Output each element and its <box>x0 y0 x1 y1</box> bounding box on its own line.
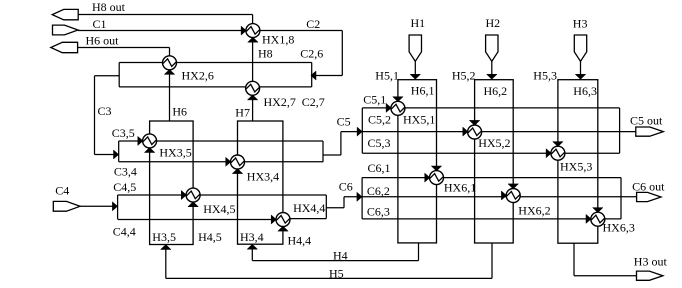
wire H3 feed <box>580 61 582 79</box>
wire C6 collect manifold <box>620 178 622 219</box>
arrow down into HX6,1 <box>431 166 441 171</box>
svg-text:HX5,2: HX5,2 <box>478 136 510 150</box>
stream arrow C4 in <box>53 201 80 211</box>
wire C3,5 branch <box>119 140 323 142</box>
heat exchanger HX5,3 <box>551 146 565 160</box>
wire C4,4 branch <box>118 219 277 221</box>
wire C5 merge jog <box>340 132 342 155</box>
svg-text:H3 out: H3 out <box>634 255 668 269</box>
svg-text:C3,4: C3,4 <box>114 165 137 179</box>
arrow up into HX1,8 <box>248 37 258 42</box>
arrow up into column L2 <box>247 244 257 249</box>
svg-text:C3,5: C3,5 <box>112 126 135 140</box>
wire C2,7 branch (box bottom) <box>119 86 312 88</box>
svg-text:H3,5: H3,5 <box>152 230 176 244</box>
wire C3 manifold <box>118 141 120 162</box>
svg-text:C6,1: C6,1 <box>368 161 391 175</box>
arrow H1 into column R1 <box>410 74 420 79</box>
wire C5 collect manifold <box>619 108 621 153</box>
wire H5 drop from column R2 <box>491 243 493 278</box>
svg-text:H2: H2 <box>486 16 501 30</box>
arrow up into HX3,4 <box>232 169 242 174</box>
wire C2,6 branch (box top) <box>119 62 312 64</box>
arrow into HX5,3 <box>546 149 551 158</box>
svg-text:H5,2: H5,2 <box>452 68 476 82</box>
svg-text:H6 out: H6 out <box>86 34 120 48</box>
heat exchanger HX6,1 <box>430 171 444 185</box>
wire H8 out line <box>78 14 253 16</box>
svg-text:C4,4: C4,4 <box>113 225 136 239</box>
wire C6 merge tap <box>326 207 344 209</box>
heat exchanger HX2,6 <box>163 56 177 70</box>
arrow into HX5,2 <box>463 127 468 136</box>
arrow up into HX2,6 <box>164 69 174 74</box>
wire C6 split manifold <box>361 178 363 219</box>
wire C6 merge jog <box>343 197 345 208</box>
arrow down into HX5,3 <box>553 142 563 147</box>
svg-text:C1: C1 <box>93 17 107 31</box>
svg-text:C6,3: C6,3 <box>367 205 390 219</box>
svg-text:H4,5: H4,5 <box>198 230 222 244</box>
wire C5 split manifold <box>361 108 363 153</box>
svg-text:HX3,4: HX3,4 <box>247 170 279 184</box>
wire C3 inlet <box>95 154 119 156</box>
arrow down into HX6,2 <box>508 184 518 189</box>
heat exchanger HX4,4 <box>276 213 290 227</box>
svg-text:HX4,4: HX4,4 <box>293 201 325 215</box>
arrow into HX6,3 <box>586 214 591 223</box>
svg-text:HX1,8: HX1,8 <box>262 32 294 46</box>
svg-text:H5,3: H5,3 <box>533 68 557 82</box>
arrow up into HX4,4 <box>278 226 288 231</box>
arrow H2 into column R2 <box>487 74 497 79</box>
arrow down into HX5,2 <box>469 120 479 125</box>
arrow C2,6 into box <box>311 71 316 80</box>
wire C5,2 branch / C5 out <box>341 131 636 133</box>
svg-text:H8: H8 <box>258 47 273 61</box>
wire H5 riser into column L1 <box>165 245 167 279</box>
svg-text:HX6,1: HX6,1 <box>444 181 476 195</box>
svg-text:C5: C5 <box>337 115 351 129</box>
stream arrow H1 in <box>409 35 421 61</box>
column R3 <box>558 80 598 244</box>
column R2 <box>475 80 514 243</box>
svg-text:C2,6: C2,6 <box>300 47 323 61</box>
arrow C5 into manifold <box>357 127 362 136</box>
stream arrow H3 in <box>574 35 586 61</box>
wire H4 drop from column R1 <box>418 243 420 261</box>
svg-text:C6 out: C6 out <box>632 180 665 194</box>
wire H8/H7 vertical <box>252 15 254 122</box>
wire H2 feed <box>491 61 493 79</box>
svg-text:HX5,3: HX5,3 <box>560 159 592 173</box>
wire C5 merge bracket <box>322 141 324 162</box>
svg-text:H4: H4 <box>333 249 348 263</box>
arrow into HX1,8 <box>241 26 246 35</box>
wire H6 vertical <box>169 48 171 122</box>
stream arrow C5 out <box>636 127 664 136</box>
svg-text:H3: H3 <box>573 17 588 31</box>
wire C3,4 branch <box>119 161 324 163</box>
heat exchanger HX3,5 <box>143 134 157 148</box>
wire C6,3 branch <box>362 218 621 220</box>
svg-text:C5,2: C5,2 <box>368 112 391 126</box>
wire H5 line <box>166 277 492 279</box>
svg-text:C6,2: C6,2 <box>367 184 390 198</box>
arrow down into HX5,1 <box>393 97 403 102</box>
wire C4,5 branch <box>118 194 327 196</box>
wire C5,1 branch <box>362 107 619 109</box>
wire C5,3 branch <box>362 152 619 154</box>
heat exchanger HX4,5 <box>186 188 200 202</box>
wire C3 tap <box>95 75 120 77</box>
heat exchanger HX1,8 <box>246 24 260 38</box>
heat exchanger HX6,3 <box>591 212 605 226</box>
column R1 <box>398 80 437 243</box>
arrow C6 into manifold <box>357 192 362 201</box>
wire C2 drop <box>341 31 343 76</box>
heat exchanger HX2,7 <box>246 81 260 95</box>
wire box T left edge <box>118 63 120 87</box>
arrow H3 into column R3 <box>575 74 585 79</box>
svg-text:HX6,3: HX6,3 <box>603 221 635 235</box>
column L2 <box>238 121 283 244</box>
wire H3 out line <box>574 275 637 277</box>
arrow into HX3,5 <box>138 136 143 145</box>
svg-text:HX3,5: HX3,5 <box>159 146 191 160</box>
svg-text:H6,2: H6,2 <box>484 84 508 98</box>
arrow into HX4,4 <box>271 215 276 224</box>
stream arrow C6 out <box>637 192 661 201</box>
svg-text:H6,3: H6,3 <box>573 84 597 98</box>
svg-text:HX5,1: HX5,1 <box>403 112 435 126</box>
column L1 <box>150 121 194 245</box>
arrow into HX5,1 <box>386 103 391 112</box>
svg-text:H1: H1 <box>411 16 426 30</box>
arrow into HX6,1 <box>425 173 430 182</box>
svg-text:HX6,2: HX6,2 <box>518 204 550 218</box>
svg-text:H4,4: H4,4 <box>288 234 312 248</box>
svg-text:C2,7: C2,7 <box>302 95 325 109</box>
svg-text:C4: C4 <box>55 184 69 198</box>
heat exchanger HX5,2 <box>468 125 482 139</box>
svg-text:H3,4: H3,4 <box>240 230 264 244</box>
stream arrow H6 out <box>51 42 78 52</box>
svg-text:C4,5: C4,5 <box>113 180 136 194</box>
arrow into HX3,4 <box>226 157 231 166</box>
wire H4 riser into column L2 <box>251 244 253 260</box>
arrow C4 into manifold <box>112 202 117 211</box>
wire C4 manifold <box>117 195 119 220</box>
arrow up into HX4,5 <box>188 202 198 207</box>
wire C2,6 entry <box>312 75 343 77</box>
svg-text:H8 out: H8 out <box>92 0 126 14</box>
svg-text:H5: H5 <box>329 267 344 281</box>
wire H4 line <box>252 260 418 262</box>
svg-text:C5,1: C5,1 <box>363 93 386 107</box>
wire C3 drop <box>94 76 96 155</box>
svg-text:C5 out: C5 out <box>630 114 663 128</box>
wire C4,4 outlet <box>290 218 327 220</box>
wire C1-C2 line <box>78 30 342 32</box>
svg-text:H6: H6 <box>172 105 187 119</box>
arrow into HX6,2 <box>501 191 506 200</box>
heat exchanger HX5,1 <box>391 101 405 115</box>
svg-text:H6,1: H6,1 <box>411 84 435 98</box>
stream arrow C1 in <box>53 25 79 35</box>
wire C5 merge tap <box>323 154 341 156</box>
heat exchanger HX6,2 <box>506 189 520 203</box>
svg-text:C2: C2 <box>306 17 320 31</box>
svg-text:HX4,5: HX4,5 <box>203 202 235 216</box>
svg-text:HX2,6: HX2,6 <box>182 68 214 82</box>
arrow up into HX2,7 <box>247 95 257 100</box>
svg-text:H5,1: H5,1 <box>375 68 399 82</box>
wire C6,1 branch <box>362 177 621 179</box>
wire C4 inlet <box>80 205 118 207</box>
stream arrow H8 out <box>52 9 78 19</box>
wire box T right edge <box>311 63 313 87</box>
svg-text:C6: C6 <box>339 180 353 194</box>
wire C6 merge bracket <box>325 195 327 219</box>
arrow down into HX6,3 <box>593 208 603 213</box>
arrow C3 into manifold <box>114 150 119 159</box>
arrow up into column L1 <box>161 245 171 250</box>
wire H1 feed <box>414 61 416 79</box>
stream arrow H3 out <box>637 271 663 280</box>
svg-text:HX2,7: HX2,7 <box>264 95 296 109</box>
svg-text:C5,3: C5,3 <box>368 136 391 150</box>
heat exchanger HX3,4 <box>231 155 245 169</box>
wire H6 out line <box>78 47 170 49</box>
arrow up into HX3,5 <box>144 148 154 153</box>
svg-text:C3: C3 <box>98 104 112 118</box>
stream arrow H2 in <box>486 35 498 61</box>
wire C6,2 branch / C6 out <box>344 196 637 198</box>
arrow into HX4,5 <box>181 191 186 200</box>
wire H3 out drop <box>573 243 575 276</box>
svg-text:H7: H7 <box>235 106 250 120</box>
